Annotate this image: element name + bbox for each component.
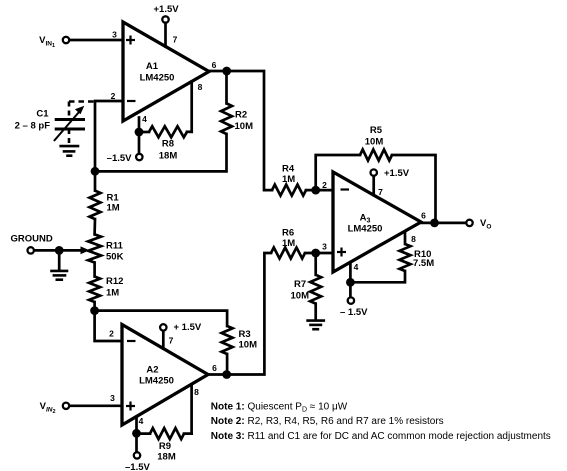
svg-text:2: 2	[111, 91, 116, 101]
svg-text:18M: 18M	[159, 151, 178, 162]
svg-text:C1: C1	[36, 109, 49, 120]
svg-text:Note 2: R2, R3, R4, R5, R6 and: Note 2: R2, R3, R4, R5, R6 and R7 are 1%…	[211, 416, 444, 427]
svg-text:2: 2	[109, 329, 114, 339]
svg-text:8: 8	[411, 234, 416, 244]
svg-text:–1.5V: –1.5V	[107, 153, 132, 164]
svg-text:VIN2: VIN2	[40, 401, 56, 415]
svg-text:+1.5V: +1.5V	[154, 4, 180, 15]
svg-text:8: 8	[194, 387, 199, 397]
svg-text:R9: R9	[159, 441, 171, 452]
svg-text:6: 6	[421, 211, 426, 221]
svg-text:VO: VO	[480, 218, 491, 231]
svg-text:VIN1: VIN1	[39, 35, 55, 49]
svg-text:3: 3	[110, 393, 115, 403]
svg-text:6: 6	[212, 363, 217, 373]
svg-text:10M: 10M	[239, 340, 258, 351]
svg-text:LM4250: LM4250	[140, 73, 175, 84]
svg-text:4: 4	[354, 262, 359, 272]
svg-text:1M: 1M	[106, 288, 119, 299]
svg-text:7: 7	[169, 336, 174, 346]
svg-text:2 – 8 pF: 2 – 8 pF	[15, 121, 51, 132]
svg-text:Note 3: R11 and C1 are for DC: Note 3: R11 and C1 are for DC and AC com…	[211, 431, 551, 442]
svg-text:6: 6	[212, 60, 217, 70]
svg-text:Note 1: Quiescent PD ≈ 10 μW: Note 1: Quiescent PD ≈ 10 μW	[211, 402, 348, 414]
svg-text:–1.5V: –1.5V	[125, 462, 150, 471]
svg-text:7: 7	[378, 187, 383, 197]
svg-text:1M: 1M	[282, 174, 295, 185]
svg-text:R11: R11	[106, 241, 124, 252]
svg-text:LM4250: LM4250	[348, 224, 383, 235]
svg-text:10M: 10M	[235, 121, 254, 132]
svg-text:18M: 18M	[157, 452, 176, 463]
svg-text:7: 7	[173, 35, 178, 45]
svg-text:R7: R7	[294, 279, 306, 290]
svg-text:R3: R3	[239, 329, 251, 340]
svg-text:1M: 1M	[282, 238, 295, 249]
svg-text:10M: 10M	[365, 137, 384, 148]
svg-text:4: 4	[139, 416, 144, 426]
svg-text:R4: R4	[282, 164, 295, 175]
svg-text:4: 4	[142, 114, 147, 124]
svg-text:10M: 10M	[291, 291, 310, 302]
svg-text:A2: A2	[146, 365, 158, 376]
svg-text:– 1.5V: – 1.5V	[340, 307, 368, 318]
svg-text:7.5M: 7.5M	[413, 258, 434, 269]
svg-text:GROUND: GROUND	[11, 234, 53, 245]
svg-text:3: 3	[322, 242, 327, 252]
svg-text:50K: 50K	[106, 252, 124, 263]
svg-text:R5: R5	[370, 125, 383, 136]
svg-text:8: 8	[198, 82, 203, 92]
svg-text:3: 3	[112, 30, 117, 40]
svg-text:R8: R8	[162, 139, 174, 150]
svg-text:R12: R12	[106, 276, 123, 287]
svg-text:R6: R6	[282, 228, 294, 239]
svg-text:2: 2	[322, 180, 327, 190]
svg-text:R2: R2	[235, 110, 247, 121]
svg-text:1M: 1M	[107, 203, 120, 214]
svg-text:+ 1.5V: + 1.5V	[174, 322, 202, 333]
svg-text:LM4250: LM4250	[139, 376, 174, 387]
svg-text:+1.5V: +1.5V	[384, 168, 410, 179]
svg-text:A1: A1	[146, 61, 159, 72]
